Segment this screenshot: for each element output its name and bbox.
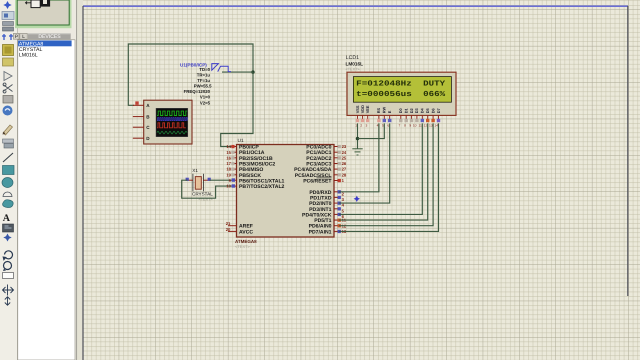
svg-text:<TEXT>: <TEXT> bbox=[346, 68, 361, 72]
crystal value CRYSTAL bbox=[192, 192, 213, 197]
oscilloscope pin stubs bbox=[133, 105, 144, 138]
svg-text:TF=1u: TF=1u bbox=[197, 78, 210, 83]
pulse generator label bbox=[180, 62, 207, 67]
svg-text:P: P bbox=[15, 34, 18, 40]
U1 right pin stubs bbox=[334, 147, 339, 232]
U1 reference label bbox=[238, 138, 244, 144]
U1 RESET pin overline bbox=[317, 177, 332, 179]
LCD1 pin state squares bbox=[356, 119, 440, 122]
left panel background bbox=[18, 0, 77, 360]
wire: LCD D4 to U1 PD4 bbox=[339, 123, 423, 214]
svg-text:E: E bbox=[387, 110, 392, 113]
svg-text:LCD1: LCD1 bbox=[346, 55, 359, 61]
svg-text:10: 10 bbox=[226, 184, 231, 189]
svg-text:10: 10 bbox=[413, 124, 417, 128]
U1 left pin state squares bbox=[231, 145, 234, 177]
svg-text:VEE: VEE bbox=[365, 105, 370, 113]
svg-text:LM016L: LM016L bbox=[19, 53, 38, 59]
svg-text:L: L bbox=[22, 34, 25, 40]
U1 left pin stubs bbox=[228, 147, 237, 232]
LCD1 reference label bbox=[346, 55, 359, 61]
LCD1 pin stubs bbox=[358, 115, 439, 119]
wire: LCD D5 to U1 PD5 bbox=[339, 123, 428, 220]
crystal X1 bbox=[188, 174, 210, 191]
sheet border left bbox=[82, 6, 84, 360]
U1 left pin numbers bbox=[226, 144, 232, 232]
svg-text:V2=5: V2=5 bbox=[200, 100, 211, 105]
U1 left pin names bbox=[239, 145, 285, 236]
sheet border top (blue rail) bbox=[83, 5, 628, 7]
svg-text:PB7/TOSC2/XTAL2: PB7/TOSC2/XTAL2 bbox=[239, 184, 285, 190]
P button bbox=[13, 33, 19, 40]
svg-text:3: 3 bbox=[365, 124, 367, 128]
wire: junction down and into pin PB0/ICP bbox=[221, 72, 253, 146]
svg-text:D3: D3 bbox=[414, 107, 419, 113]
svg-text:2: 2 bbox=[360, 124, 362, 128]
svg-text:RS: RS bbox=[376, 107, 381, 113]
svg-text:15: 15 bbox=[226, 150, 231, 155]
wire: LCD E to U1 PD2 bbox=[339, 123, 390, 203]
svg-text:26: 26 bbox=[342, 161, 347, 166]
LCD1 value label LM016L bbox=[346, 61, 364, 66]
wire: LCD RW to ground junction bbox=[358, 123, 385, 138]
wire: LCD D7 to U1 PD7 bbox=[339, 123, 439, 231]
oscilloscope body bbox=[144, 100, 192, 144]
svg-text:AVCC: AVCC bbox=[239, 229, 253, 235]
svg-text:12: 12 bbox=[424, 124, 428, 128]
svg-text:V1=0: V1=0 bbox=[200, 95, 211, 100]
device list box bbox=[18, 40, 75, 360]
wire: LCD RS to U1 PD0 bbox=[339, 123, 379, 191]
svg-text:7: 7 bbox=[399, 124, 401, 128]
preview window frame bbox=[15, 0, 72, 28]
svg-text:23: 23 bbox=[342, 144, 347, 149]
oscilloscope channel labels bbox=[146, 103, 150, 141]
svg-text:24: 24 bbox=[342, 150, 347, 155]
svg-text:DEVICES: DEVICES bbox=[38, 34, 61, 40]
svg-text:D6: D6 bbox=[430, 107, 435, 113]
svg-text:D2: D2 bbox=[409, 107, 414, 113]
crystal TEXT placeholder bbox=[199, 198, 214, 202]
LCD1 display text line 1 bbox=[356, 79, 445, 88]
wire: LCD VSS to ground bbox=[357, 123, 359, 148]
svg-text:D4: D4 bbox=[420, 107, 425, 113]
wire: node PB0 rectangle top bbox=[128, 44, 253, 105]
U1 right pin numbers bbox=[342, 144, 347, 234]
svg-text:13: 13 bbox=[429, 124, 433, 128]
svg-text:<TEXT>: <TEXT> bbox=[235, 244, 251, 249]
svg-text:PW=55.5: PW=55.5 bbox=[194, 84, 212, 89]
wire: pulse generator to junction bbox=[222, 71, 253, 73]
svg-text:D1: D1 bbox=[404, 107, 409, 113]
LCD1 TEXT placeholder bbox=[346, 68, 361, 72]
svg-text:PC6/RESET: PC6/RESET bbox=[303, 179, 332, 185]
svg-text:19: 19 bbox=[226, 172, 231, 177]
svg-text:PD7/AIN1: PD7/AIN1 bbox=[309, 229, 332, 235]
svg-text:TR=1u: TR=1u bbox=[197, 73, 211, 78]
LCD1 pin numbers bbox=[355, 124, 438, 128]
svg-text:18: 18 bbox=[226, 167, 231, 172]
oscilloscope trace D (green sine) bbox=[157, 131, 187, 134]
oscilloscope trace B (blue dense wave) bbox=[157, 118, 187, 121]
svg-text:9: 9 bbox=[409, 124, 411, 128]
svg-text:D0: D0 bbox=[398, 108, 403, 113]
oscilloscope trace C (red square wave) bbox=[157, 123, 186, 128]
svg-text:CRYSTAL: CRYSTAL bbox=[192, 192, 213, 197]
op-amp body: microcontroller U1 ATMEGA8 bbox=[237, 145, 335, 238]
svg-text:16: 16 bbox=[226, 155, 231, 160]
svg-text:F=012048Hz: F=012048Hz bbox=[356, 79, 412, 88]
LCD1 screen bbox=[353, 77, 451, 103]
wire: crystal left pin loop to PB7 bbox=[182, 180, 232, 198]
svg-text:20: 20 bbox=[226, 227, 231, 232]
svg-text:LM016L: LM016L bbox=[346, 61, 364, 66]
svg-text:D5: D5 bbox=[425, 107, 430, 113]
svg-text:t=000056us: t=000056us bbox=[356, 90, 412, 99]
wire: LCD D6 to U1 PD6 bbox=[339, 123, 433, 225]
svg-text:DUTY: DUTY bbox=[423, 80, 445, 88]
svg-text:14: 14 bbox=[434, 124, 438, 128]
oscilloscope pin A connection marker bbox=[135, 101, 138, 104]
LCD1 display text line 2 bbox=[356, 90, 445, 99]
toolbar icons bbox=[2, 1, 14, 305]
svg-text:X1: X1 bbox=[192, 168, 198, 173]
preview component drawing bbox=[26, 0, 51, 8]
crystal pin end markers bbox=[186, 178, 211, 181]
LCD1 board bbox=[347, 72, 456, 115]
svg-text:TD=0: TD=0 bbox=[199, 67, 210, 72]
L button bbox=[20, 33, 27, 40]
crystal label X1 bbox=[192, 168, 198, 173]
origin marker bbox=[354, 196, 360, 202]
oscilloscope trace A (green square wave) bbox=[157, 111, 187, 115]
svg-text:U1: U1 bbox=[238, 138, 244, 144]
sheet border right bbox=[627, 6, 629, 296]
svg-text:FREQ=12020: FREQ=12020 bbox=[184, 89, 211, 94]
U1 pin 9 10 state markers (blue) bbox=[232, 178, 235, 187]
svg-text:14: 14 bbox=[226, 144, 231, 149]
U1 right pin names bbox=[294, 145, 332, 236]
svg-text:RW: RW bbox=[382, 107, 387, 114]
svg-text:8: 8 bbox=[404, 124, 406, 128]
DEVICES header bar bbox=[28, 33, 71, 40]
U1 value label ATMEGA8 bbox=[235, 239, 257, 244]
svg-text:21: 21 bbox=[226, 221, 231, 226]
device list row LM016L bbox=[19, 53, 38, 59]
ground bbox=[352, 149, 362, 155]
panel right border bbox=[76, 0, 78, 360]
device list row CRYSTAL bbox=[19, 47, 43, 53]
left toolbar background bbox=[0, 0, 18, 360]
svg-text:27: 27 bbox=[342, 167, 347, 172]
svg-text:25: 25 bbox=[342, 155, 347, 160]
pulse generator properties text bbox=[184, 67, 213, 105]
svg-text:D7: D7 bbox=[436, 108, 441, 113]
svg-text:A: A bbox=[3, 213, 11, 224]
oscilloscope screen bbox=[156, 108, 188, 136]
pulse generator symbol bbox=[212, 64, 231, 72]
svg-text:066%: 066% bbox=[423, 90, 445, 99]
svg-text:11: 11 bbox=[418, 124, 422, 128]
svg-text:17: 17 bbox=[226, 161, 231, 166]
wire: crystal right pin to PB6 bbox=[210, 179, 232, 181]
svg-text:28: 28 bbox=[342, 172, 347, 177]
U1 TEXT placeholder bbox=[235, 244, 251, 249]
junction VSS/RW bbox=[356, 137, 359, 140]
device list selected row ATMEGA8 bbox=[18, 41, 72, 48]
U1 right pin state squares bbox=[338, 145, 341, 233]
LCD1 vertical pin name labels bbox=[355, 105, 441, 113]
junction node PB0 bbox=[251, 70, 254, 73]
